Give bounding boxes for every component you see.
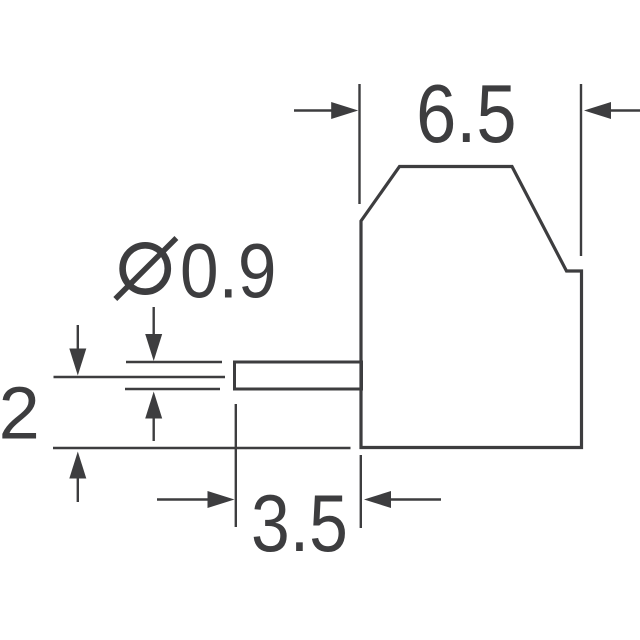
- svg-text:0.9: 0.9: [180, 228, 276, 314]
- svg-text:2: 2: [0, 372, 40, 455]
- svg-text:6.5: 6.5: [416, 68, 516, 160]
- svg-text:3.5: 3.5: [251, 479, 348, 569]
